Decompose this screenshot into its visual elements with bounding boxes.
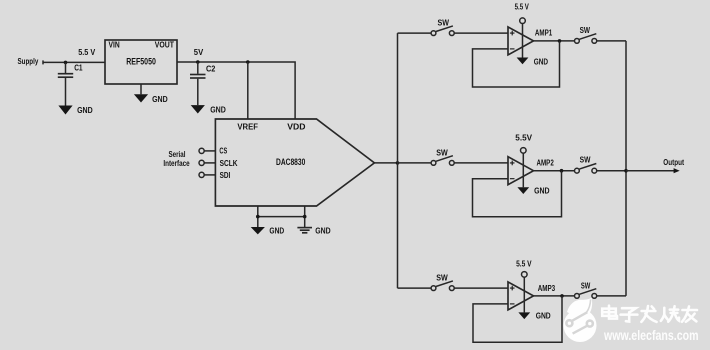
svg-text:5.5 V: 5.5 V: [78, 48, 96, 57]
svg-text:Supply: Supply: [18, 57, 39, 66]
wire AMP1 output: [534, 40, 575, 42]
ground at C2: [191, 105, 226, 115]
wire right bus vertical: [625, 41, 627, 296]
wire supply to VIN: [43, 61, 105, 63]
switch SW (AMP3 input): [431, 274, 454, 291]
svg-text:AMP3: AMP3: [538, 284, 556, 293]
wire AMP2 output: [534, 170, 575, 172]
op-amp AMP1: [508, 27, 553, 55]
junction dot AMP2 feedback: [560, 169, 564, 173]
wire SW1b to right bus: [597, 40, 626, 42]
ground at REF5050: [134, 84, 168, 104]
svg-text:DAC8830: DAC8830: [276, 157, 305, 168]
wire AMP3 output: [534, 295, 575, 297]
wire VOUT 5V rail: [177, 62, 295, 119]
wire SW2a to AMP2 input: [454, 162, 508, 164]
svg-text:www.elecfans.com: www.elecfans.com: [603, 328, 698, 343]
svg-text:AMP1: AMP1: [535, 29, 553, 38]
junction dot output bus: [624, 169, 628, 173]
wire DAC output to bus: [374, 162, 397, 164]
capacitor C1: [58, 62, 83, 105]
svg-text:VDD: VDD: [287, 123, 305, 132]
svg-text:GND: GND: [77, 106, 93, 115]
svg-text:SW: SW: [580, 26, 591, 35]
svg-text:GND: GND: [152, 95, 168, 104]
wire bus to SW3a: [398, 287, 432, 289]
ground arrow at DAC: [251, 227, 285, 236]
earth ground at DAC: [297, 227, 330, 236]
svg-text:VOUT: VOUT: [155, 41, 174, 50]
svg-text:5.5 V: 5.5 V: [515, 3, 530, 12]
power terminal circle AMP3: [522, 272, 528, 278]
svg-text:Output: Output: [663, 158, 684, 167]
ground at C1: [58, 106, 92, 116]
watermark chinese char 1 (dian): [602, 306, 617, 319]
wire left bus vertical: [397, 33, 399, 288]
svg-text:SW: SW: [581, 282, 591, 291]
wire AMP3 feedback loop: [473, 296, 562, 342]
label Serial Interface: [163, 150, 190, 168]
svg-text:GND: GND: [536, 312, 551, 321]
power terminal circle AMP2: [521, 148, 527, 154]
switch SW (AMP3 output): [575, 282, 597, 299]
watermark chinese char 5 (you): [682, 306, 697, 321]
ground at AMP2: [517, 187, 549, 196]
svg-text:GND: GND: [269, 227, 284, 236]
svg-text:GND: GND: [210, 106, 226, 115]
junction dot at VREF feed: [246, 60, 250, 64]
junction dot at C1: [64, 61, 68, 65]
op-amp AMP2: [508, 157, 554, 185]
svg-text:SW: SW: [436, 149, 448, 158]
svg-text:VREF: VREF: [237, 123, 258, 132]
watermark chinese char 3 (fa): [641, 306, 656, 322]
svg-text:C1: C1: [74, 64, 83, 73]
svg-text:SW: SW: [438, 19, 450, 28]
power terminal circle AMP1: [520, 18, 526, 24]
wire SW2b to right bus: [597, 170, 626, 172]
capacitor C2: [190, 62, 216, 105]
svg-text:GND: GND: [534, 187, 550, 196]
ground at AMP1: [517, 57, 549, 66]
switch SW (AMP1 output): [575, 26, 597, 43]
pin SCLK: [199, 159, 238, 168]
svg-text:SDI: SDI: [220, 171, 231, 180]
wire bus to SW1a: [398, 32, 432, 34]
junction dot at C2: [196, 60, 200, 64]
wire supply stem through AMP1: [522, 24, 524, 58]
pin SDI: [199, 171, 230, 180]
wire SW3b to right bus: [597, 295, 626, 297]
svg-text:5V: 5V: [194, 48, 204, 57]
svg-text:C2: C2: [206, 65, 216, 74]
wire SW1a to AMP1 input: [454, 32, 508, 34]
wire SW3a to AMP3 input: [454, 287, 508, 289]
wire AMP1 feedback loop: [473, 41, 560, 87]
voltage reference U? REF5050: [105, 40, 177, 84]
DAC U? DAC8830 pentagon body: [215, 119, 374, 206]
wire supply stem through AMP2: [522, 153, 524, 187]
svg-text:REF5050: REF5050: [126, 57, 156, 68]
junction dot AMP3 feedback: [560, 294, 564, 298]
wire VREF pin feed: [247, 62, 249, 119]
svg-text:5.5 V: 5.5 V: [516, 259, 532, 268]
junction dot DAC output: [396, 161, 400, 165]
watermark chinese char 4 (shao): [661, 306, 679, 322]
svg-text:5.5V: 5.5V: [515, 134, 532, 143]
wire supply stem through AMP3: [523, 277, 525, 312]
switch SW (AMP2 input): [431, 149, 454, 166]
switch SW (AMP1 input): [431, 19, 454, 36]
switch SW (AMP2 output): [575, 156, 597, 174]
pin CS: [199, 147, 228, 156]
wire bus to SW2a: [398, 162, 432, 164]
svg-text:SW: SW: [436, 274, 448, 283]
svg-text:AMP2: AMP2: [537, 158, 555, 167]
junction dot AMP1 feedback: [558, 39, 562, 43]
supply terminal tick: [42, 60, 44, 64]
svg-text:CS: CS: [219, 147, 227, 156]
wire output with arrowhead: [626, 158, 684, 174]
svg-text:GND: GND: [315, 227, 331, 236]
svg-text:Interface: Interface: [163, 159, 190, 168]
wire AMP2 feedback loop: [473, 171, 562, 217]
svg-text:GND: GND: [534, 57, 548, 66]
svg-text:SW: SW: [580, 156, 591, 165]
watermark logo flame disc: [564, 298, 597, 342]
ground at AMP3: [518, 312, 550, 321]
op-amp AMP3: [508, 282, 556, 310]
watermark chinese char 2 (zi): [621, 308, 638, 321]
svg-text:VIN: VIN: [109, 41, 120, 50]
svg-text:SCLK: SCLK: [220, 159, 238, 168]
wire DAC ground stubs: [256, 206, 307, 227]
